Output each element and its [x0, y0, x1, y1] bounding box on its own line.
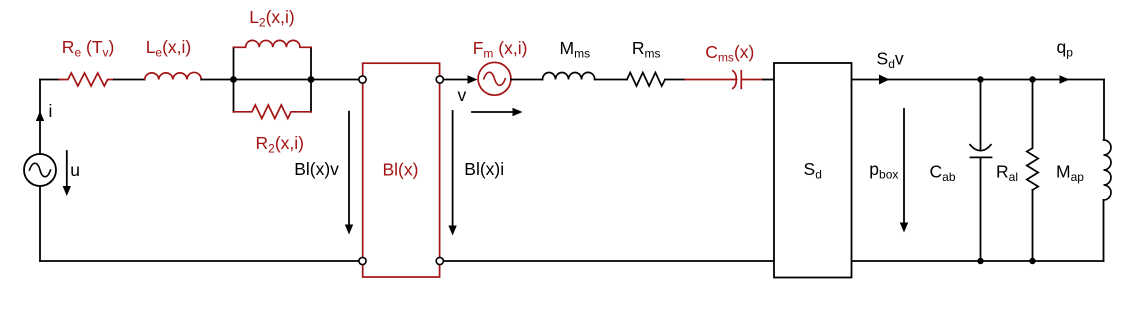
node B right junction of parallel group — [308, 76, 315, 83]
inductor L1 Le(x,i) — [145, 72, 202, 79]
wire — [511, 79, 543, 81]
arrow Bl(x)v — [348, 112, 350, 226]
arrow u (voltage arrow) — [66, 151, 68, 188]
svg-text:Fm (x,i): Fm (x,i) — [473, 38, 528, 61]
wire — [201, 79, 359, 81]
terminal top-left of Bl block — [359, 76, 366, 83]
coupler block Sd — [774, 63, 852, 278]
node C junction top for Cab — [977, 76, 983, 82]
svg-text:i: i — [49, 101, 53, 121]
wire top rail right of Sd — [852, 79, 1105, 81]
wire parallel group right vertical — [310, 47, 312, 112]
node F junction bottom for Ral — [1029, 258, 1035, 264]
arrow qp on wire — [1060, 75, 1070, 83]
arrow p_box — [903, 109, 905, 224]
svg-text:L2(x,i): L2(x,i) — [249, 7, 295, 30]
resistor Ral — [1032, 80, 1034, 149]
wire — [763, 79, 774, 81]
arrow Bl(x)i — [452, 111, 454, 227]
wire parallel group left vertical — [233, 47, 235, 112]
node E junction bottom for Cab — [977, 258, 983, 264]
wire top rail left segment — [40, 79, 59, 81]
svg-text:u: u — [70, 160, 80, 180]
inductor Mms — [543, 72, 595, 79]
voltage source U1 — [24, 154, 56, 186]
wire left rail vertical — [39, 80, 41, 155]
terminal bottom-right of Bl block — [436, 257, 443, 264]
svg-text:Bl(x)v: Bl(x)v — [294, 159, 339, 179]
wire — [665, 79, 685, 81]
node A left junction of parallel group — [230, 76, 237, 83]
svg-text:R2(x,i): R2(x,i) — [256, 133, 304, 156]
svg-text:Bl(x)i: Bl(x)i — [464, 159, 504, 179]
terminal top-right of Bl block — [436, 76, 443, 83]
svg-text:Le(x,i): Le(x,i) — [146, 37, 192, 60]
source Fm(x,i) — [478, 62, 511, 95]
inductor Map — [1103, 80, 1105, 141]
wire — [114, 79, 145, 81]
transducer block Bl(x) — [363, 63, 440, 277]
wire — [595, 79, 627, 81]
capacitor Cms(x) — [685, 79, 737, 81]
svg-text:v: v — [458, 85, 467, 105]
capacitor Cab — [980, 80, 982, 151]
inductor L2(x,i) — [234, 40, 312, 47]
arrow current into Fm — [468, 75, 478, 83]
arrow Sd v on wire — [879, 75, 890, 85]
node D junction top for Ral — [1029, 76, 1035, 82]
terminal bottom-left of Bl block — [359, 257, 366, 264]
arrow current i on left rail — [36, 111, 44, 121]
resistor Rms — [627, 73, 665, 87]
resistor R2(x,i) — [234, 105, 312, 119]
svg-text:Bl(x): Bl(x) — [383, 160, 419, 180]
resistor R1 Re(Tv) — [59, 73, 114, 86]
arrow v (velocity arrow) — [472, 111, 513, 113]
wire bottom rail — [40, 260, 1104, 262]
wire from Bl block to Fm — [443, 79, 468, 81]
